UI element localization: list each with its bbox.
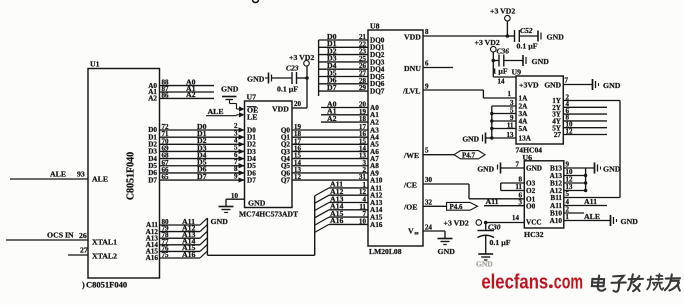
svg-text:GND: GND <box>532 57 550 66</box>
svg-text:14: 14 <box>512 214 520 222</box>
svg-text:C8051F040: C8051F040 <box>86 280 127 290</box>
svg-text:ALE: ALE <box>208 107 224 116</box>
svg-text:LM20L08: LM20L08 <box>369 247 402 256</box>
svg-text:GND: GND <box>547 33 565 42</box>
svg-text:14: 14 <box>498 78 506 86</box>
svg-text:C23: C23 <box>286 64 299 73</box>
svg-text:A11: A11 <box>486 197 499 206</box>
svg-text:V: V <box>408 227 414 236</box>
svg-text:XTAL1: XTAL1 <box>92 238 117 247</box>
svg-text:U1: U1 <box>90 60 100 69</box>
svg-text:26: 26 <box>79 231 87 240</box>
svg-text:/WE: /WE <box>403 151 419 160</box>
svg-text:18: 18 <box>359 115 367 123</box>
svg-text:U9: U9 <box>512 68 522 77</box>
svg-text:VDD: VDD <box>404 33 421 42</box>
svg-text:86: 86 <box>162 91 170 99</box>
svg-text:9: 9 <box>234 172 238 180</box>
svg-text:C52: C52 <box>520 26 533 35</box>
svg-text:GND: GND <box>544 81 561 90</box>
svg-text:A11: A11 <box>584 197 597 206</box>
svg-text:7: 7 <box>565 77 569 85</box>
svg-text:0.1 µF: 0.1 µF <box>517 42 538 51</box>
svg-text:GND: GND <box>221 85 239 94</box>
svg-text:1A: 1A <box>519 95 529 103</box>
svg-text:C30: C30 <box>488 223 501 232</box>
svg-text:GND: GND <box>462 135 479 144</box>
svg-text:GND: GND <box>248 199 266 208</box>
svg-text:C36: C36 <box>497 47 510 56</box>
svg-text:+3VD: +3VD <box>519 81 539 90</box>
svg-text:DNU: DNU <box>404 64 421 73</box>
svg-text:27: 27 <box>80 246 88 255</box>
svg-text:OCS IN: OCS IN <box>47 231 74 240</box>
svg-text:75: 75 <box>162 251 170 259</box>
svg-text:GND: GND <box>603 81 621 90</box>
svg-text:Q7: Q7 <box>281 176 291 184</box>
svg-text:5: 5 <box>425 147 429 155</box>
svg-text:/OE: /OE <box>403 203 417 212</box>
svg-text:0.1 µF: 0.1 µF <box>490 238 511 247</box>
svg-text:ALE: ALE <box>50 170 66 179</box>
svg-text:27: 27 <box>554 131 562 139</box>
svg-text:6: 6 <box>425 60 429 68</box>
svg-text:C8051F040: C8051F040 <box>126 152 137 200</box>
svg-text:P4.7: P4.7 <box>462 151 476 159</box>
svg-text:A2: A2 <box>186 90 196 99</box>
svg-text:GND: GND <box>211 217 229 226</box>
svg-text:ALE: ALE <box>92 175 108 184</box>
svg-text:D7: D7 <box>247 176 256 184</box>
svg-text:32: 32 <box>425 199 433 207</box>
svg-text:1: 1 <box>508 90 512 98</box>
svg-text:A10: A10 <box>550 217 563 225</box>
svg-text:7: 7 <box>516 160 520 168</box>
svg-text:29: 29 <box>359 84 367 92</box>
svg-text:VCC: VCC <box>526 218 542 226</box>
svg-text:HC32: HC32 <box>524 230 544 239</box>
svg-text:ss: ss <box>415 232 419 237</box>
svg-text:D7: D7 <box>197 172 207 181</box>
svg-text:A2: A2 <box>148 95 157 103</box>
svg-text:ALE: ALE <box>584 212 600 221</box>
svg-text:9: 9 <box>425 83 429 91</box>
svg-text:): ) <box>82 280 85 290</box>
svg-text:GND: GND <box>603 165 621 174</box>
svg-text:MC74HC573ADT: MC74HC573ADT <box>239 210 298 219</box>
svg-text:B11: B11 <box>550 194 562 202</box>
svg-text:VDD: VDD <box>272 105 289 114</box>
svg-text:GND: GND <box>247 75 265 84</box>
svg-text:/CE: /CE <box>403 181 417 190</box>
svg-text:+3 VD2: +3 VD2 <box>444 219 469 228</box>
svg-text:DQ7: DQ7 <box>370 88 385 96</box>
svg-text:D7: D7 <box>327 83 337 92</box>
svg-text:U8: U8 <box>370 22 380 31</box>
svg-text:0.1 µF: 0.1 µF <box>277 85 298 94</box>
svg-text:31: 31 <box>359 173 367 181</box>
svg-text:GND: GND <box>476 260 493 269</box>
svg-text:GND: GND <box>477 165 494 174</box>
svg-text:O2: O2 <box>526 187 536 195</box>
svg-text:1 µF: 1 µF <box>493 67 508 76</box>
svg-text:U7: U7 <box>247 93 257 102</box>
svg-text:LE: LE <box>247 113 257 122</box>
svg-text:A2: A2 <box>370 119 379 127</box>
svg-text:GND: GND <box>621 217 639 226</box>
svg-text:A2: A2 <box>327 114 337 123</box>
svg-text:8: 8 <box>425 28 429 36</box>
svg-text:D7: D7 <box>148 176 157 184</box>
svg-text:13A: 13A <box>519 135 532 143</box>
svg-text:elecfans: elecfans <box>481 271 548 294</box>
svg-text:A16: A16 <box>330 216 344 225</box>
svg-text:/LVL: /LVL <box>402 87 420 96</box>
svg-text:A16: A16 <box>182 250 196 259</box>
svg-text:+3 VD2: +3 VD2 <box>490 7 515 16</box>
svg-text:5A: 5A <box>519 125 529 133</box>
svg-text:30: 30 <box>425 176 433 184</box>
svg-text:A10: A10 <box>370 176 383 184</box>
svg-text:12: 12 <box>294 173 302 181</box>
svg-text:A16: A16 <box>146 254 159 262</box>
svg-text:O0: O0 <box>526 202 536 210</box>
svg-text:93: 93 <box>77 170 85 179</box>
svg-text:20: 20 <box>294 100 302 108</box>
svg-text:10: 10 <box>359 217 367 225</box>
svg-text:+3 VD2: +3 VD2 <box>289 53 314 62</box>
svg-text:24: 24 <box>425 224 433 232</box>
svg-text:A16: A16 <box>370 221 383 229</box>
svg-text:GND: GND <box>526 165 542 173</box>
svg-text:P4.6: P4.6 <box>450 203 464 211</box>
svg-text:XTAL2: XTAL2 <box>92 252 117 261</box>
svg-text:com: com <box>554 271 583 294</box>
svg-text:65: 65 <box>162 173 170 181</box>
svg-text:GND: GND <box>438 247 456 256</box>
